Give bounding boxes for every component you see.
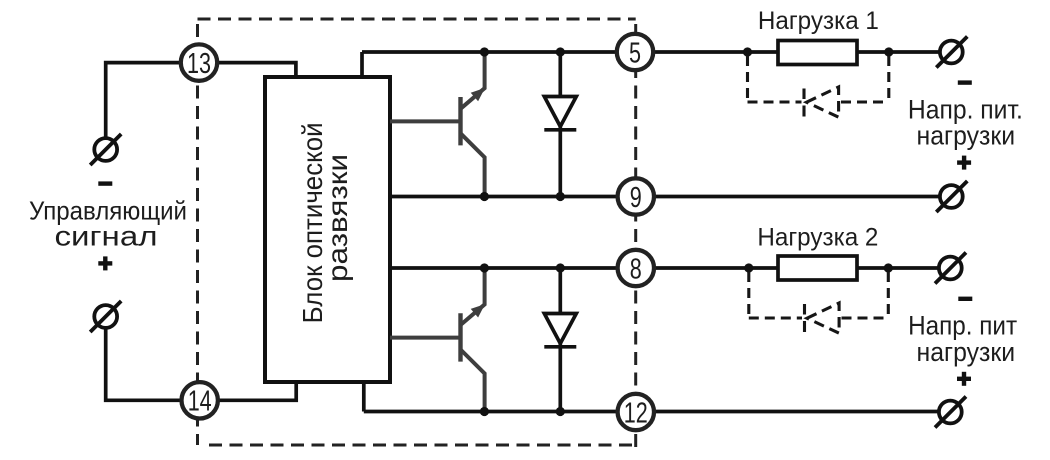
terminal (screw) load 1 minus [936,37,967,68]
pin 8 circle [618,250,654,286]
svg-text:9: 9 [630,182,642,214]
plus sign of control signal [98,256,112,270]
dashed boundary left edge [196,24,199,445]
dashed wire: load 1 bypass left drop [746,56,749,102]
Q1 base wire from block [390,119,461,123]
transistor Q1 (upper output phototransistor) [390,52,485,197]
junction: Q2 collector on rail 4 [480,407,489,416]
dashed diode 2 triangle [807,303,839,333]
pin 5 circle [617,34,653,70]
terminal (screw) load 2 plus [935,397,966,428]
VD2 vertical wire rail3 to rail4 [558,268,562,412]
wire: rail 1 (pin 5 rail) [362,50,940,54]
wire: block top to collector rail 1 [360,52,364,77]
svg-text:12: 12 [624,397,648,429]
svg-text:Нагрузка 2: Нагрузка 2 [757,223,878,251]
junction: Q1 emitter on rail 1 [480,47,489,56]
Q1 base bar [458,97,462,145]
transistor Q2 (lower output phototransistor) [390,268,485,412]
VD2 triangle (anode) [544,314,576,344]
Q1 emitter lead to rail 1 [461,52,485,109]
terminal (screw) lower-left control input plus [90,301,121,332]
VD1 triangle (anode) [544,97,576,127]
terminal (screw) load 1 plus [936,181,967,212]
pin 12 circle [618,394,654,430]
optocoupler block U1 (Блок оптической развязки) [265,77,390,382]
junction: right of load 1 [884,47,893,56]
VD2 cathode bar [544,345,576,349]
junction dots on rails [480,47,565,416]
dashed diode across load 2 [805,303,840,333]
junction dots around load 1 [743,47,894,56]
dashed diode 1 cathode bar upper half [802,89,805,100]
svg-text:Нагрузка 1: Нагрузка 1 [758,7,879,35]
junction: left of load 2 [744,263,753,272]
Q2 base bar [458,313,462,361]
svg-text:нагрузки: нагрузки [917,337,1016,367]
arrow of Q2 emitter [471,304,485,317]
diode VD1 (protection diode channel 1) [544,52,576,197]
dashed boundary top edge [198,18,636,21]
junction: VD2 top on rail 3 [556,263,565,272]
dashed wire: load 2 bypass bottom left [749,316,802,319]
wire: rail 2 (pin 9 rail) [390,195,940,199]
load resistor 1 (Нагрузка 1) [778,41,857,65]
dashed wire: load 1 bypass bottom right [841,100,889,103]
terminal (screw) load 2 minus [935,253,966,284]
svg-text:14: 14 [188,386,212,418]
pin 14 circle [182,382,218,418]
svg-text:5: 5 [629,37,641,69]
dashed wire: load 2 bypass left drop [747,272,750,318]
dashed wire: load 2 bypass bottom right [842,316,889,319]
dashed wire: load 2 bypass right drop [887,272,890,318]
dashed wire: load 1 bypass bottom left [748,100,802,103]
VD1 cathode bar [544,128,576,132]
arrow of Q1 emitter [471,88,485,101]
outer dashed boundary of relay module [198,19,636,449]
minus sign channel 1 [958,80,972,84]
junction: VD2 bottom on rail 4 [556,407,565,416]
plus sign channel 1 [957,156,971,170]
wire: upper control terminal to pin 13 and into optocoupler block [106,63,296,138]
load resistor 2 (Нагрузка 2) [778,256,857,280]
svg-text:8: 8 [630,253,642,285]
Q2 base wire from block [390,336,461,340]
svg-text:13: 13 [187,48,211,80]
junction: right of load 2 [884,263,893,272]
svg-text:сигнал: сигнал [55,221,158,252]
minus sign channel 2 [958,297,972,301]
dashed boundary right edge [634,24,637,449]
dashed bypass branch around load 1 [748,56,889,102]
wire: lower control terminal to pin 14 and into optocoupler block [106,329,297,401]
Q2 collector lead to rail 4 [461,350,485,412]
junction dots around load 2 [744,263,893,272]
junction: VD1 bottom on rail 2 [556,192,565,201]
minus sign of control signal [98,181,112,185]
pin 13 circle [181,44,217,80]
Q2 emitter lead to rail 3 [461,268,485,325]
dashed bypass branch around load 2 [749,272,889,318]
dashed diode across load 1 [804,87,839,117]
dashed wire: load 1 bypass right drop [887,56,890,102]
junction: left of load 1 [743,47,752,56]
diode VD2 (protection diode channel 2) [544,268,576,412]
svg-text:нагрузки: нагрузки [917,121,1016,151]
dashed diode 1 cathode bar lower half [802,106,805,117]
terminal (screw) upper-left control input minus [90,134,121,165]
dashed diode 2 cathode bar upper half [803,304,806,315]
VD1 vertical wire rail1 to rail2 [558,52,562,197]
Q1 collector lead to rail 2 [461,133,485,196]
dashed boundary bottom edge [209,444,636,447]
junction: Q2 emitter on rail 3 [480,263,489,272]
wire: rail 3 (pin 8 rail) [390,266,938,270]
junction: VD1 top on rail 1 [556,47,565,56]
pin 9 circle [618,178,654,214]
dashed diode 2 cathode bar lower half [803,321,806,332]
plus sign channel 2 [957,372,971,386]
wire: block bottom to rail 4 [362,382,366,412]
junction: Q1 collector on rail 2 [480,192,489,201]
wire: rail 4 (pin 12 rail) [364,410,938,414]
dashed diode 1 triangle [807,87,839,117]
